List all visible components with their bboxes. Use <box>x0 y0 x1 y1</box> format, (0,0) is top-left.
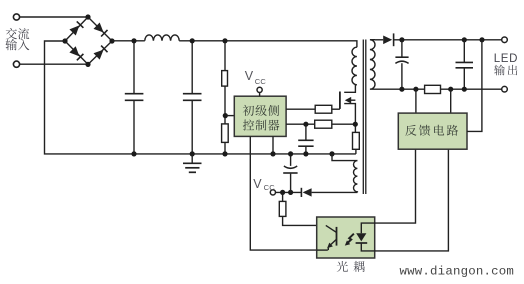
diode D6 (output rectifier) <box>375 33 394 46</box>
wire: R1 to R2 <box>224 86 226 124</box>
label: Vcc (upper) <box>245 69 267 86</box>
wire: D5 cathode to Vcc node <box>276 191 302 193</box>
label: U1 line1 初级侧 <box>243 105 279 116</box>
resistor R7 (LED current sense) <box>425 85 441 93</box>
ground symbol <box>183 154 202 172</box>
inductor L1 <box>145 35 179 41</box>
svg-text:CC: CC <box>255 77 267 86</box>
U3 LED anode lead <box>361 223 374 233</box>
feedback U2 box (反馈电路) <box>398 113 467 149</box>
wire: secondary top rail <box>394 39 502 41</box>
wire: R6 to optocoupler collector <box>283 216 326 225</box>
transformer T1 core <box>363 40 366 195</box>
node: feedback sense left <box>413 87 418 92</box>
bridge diode D3 (left-to-bottom) <box>69 46 83 60</box>
node: Q1 source / R4 junction <box>353 122 358 127</box>
svg-text:CC: CC <box>264 183 276 192</box>
node: C1 top <box>131 38 136 43</box>
node: sense/cap junction <box>303 122 308 127</box>
capacitor C4 (Vcc, electrolytic) <box>283 154 297 193</box>
transistor Q1 source lead <box>344 104 355 133</box>
wire: U1 to opto emitter <box>250 136 316 250</box>
transformer T1 primary winding <box>352 47 357 85</box>
U3 phototransistor emitter <box>327 239 336 250</box>
AC input terminal (top) <box>13 14 19 20</box>
U3 phototransistor collector <box>326 225 337 232</box>
node: bridge bottom vertex <box>85 62 90 67</box>
wire: sense left to feedback box <box>415 89 417 113</box>
AC input terminal (bottom) <box>13 61 19 67</box>
U3 LED cathode lead <box>361 243 374 251</box>
label: Vcc (lower) <box>253 177 275 192</box>
node: feedback top <box>479 37 484 42</box>
node: feedback sense right <box>448 87 453 92</box>
label: AC input (交流 / 输入) <box>5 28 29 50</box>
U3 emitter wire inside box <box>317 249 328 251</box>
wire: feedback to top rail <box>467 40 482 132</box>
capacitor C6 (output) <box>456 40 474 89</box>
node: bridge left vertex <box>62 38 67 43</box>
resistor R1 (startup upper) <box>222 71 228 87</box>
bridge diode D2 (top-to-right) <box>93 22 107 36</box>
node: Vcc / R6 junction <box>280 190 285 195</box>
capacitor C5 (output, electrolytic) <box>395 40 408 89</box>
transformer T1 secondary winding <box>370 40 375 89</box>
wire: primary top rail (inductor to transformer) <box>179 41 357 47</box>
node: C6 bottom <box>462 87 467 92</box>
node: C2 top <box>190 38 195 43</box>
node: C3 bottom on rail <box>303 151 308 156</box>
wire: secondary bottom rail (left) <box>375 88 425 90</box>
U3 LED triangle <box>356 233 366 241</box>
wire: bridge negative to primary ground rail <box>45 41 356 154</box>
node: C4 top on rail <box>288 151 293 156</box>
svg-text:www.diangon.com: www.diangon.com <box>400 264 515 278</box>
wire: rail to R1 <box>224 41 226 71</box>
label: optocoupler (光耦) <box>337 261 365 272</box>
wire: U1 ground pin <box>272 136 274 154</box>
wire: U1 gate out <box>286 108 315 110</box>
node: C6 top <box>462 37 467 42</box>
node: bridge top vertex <box>85 14 90 19</box>
capacitor C2 (bulk filter 2) <box>183 41 202 154</box>
label: U1 line2 控制器 <box>243 120 280 131</box>
resistor R6 (opto bias) <box>279 192 286 216</box>
node: U1 ground on rail <box>270 151 275 156</box>
node: ground rail / aux tap <box>329 151 334 156</box>
node: divider tap <box>223 113 228 118</box>
wire: opto cathode to feedback <box>375 149 449 251</box>
wire: R4 to MOSFET source node <box>332 123 356 125</box>
wire: aux winding tap from ground rail <box>332 154 357 161</box>
resistor R3 (gate) <box>315 105 332 113</box>
transistor Q1 gate bar <box>339 92 341 109</box>
U3 phototransistor bar <box>336 227 338 246</box>
wire: aux winding to D5 anode <box>312 191 358 193</box>
resistor R2 (startup lower) <box>222 124 229 142</box>
resistor R4 (sense filter) <box>315 120 332 128</box>
wire: tap to controller <box>225 115 234 117</box>
label: U2 反馈电路 <box>405 125 458 136</box>
node: C5 bottom <box>399 87 404 92</box>
diode D5 (Vcc rectifier) <box>301 188 311 197</box>
wire: secondary bottom rail (right) <box>441 88 502 90</box>
label: LED output <box>494 53 518 75</box>
Vcc pin terminal of U1 <box>257 87 262 96</box>
svg-text:LED: LED <box>494 53 518 65</box>
wire: U1 sense out <box>286 123 315 125</box>
capacitor C1 (bulk filter 1) <box>125 41 144 154</box>
U3 light arrow <box>345 234 354 246</box>
node: bridge right vertex <box>109 38 114 43</box>
resistor R5 (current sense) <box>353 132 360 149</box>
transformer T1 auxiliary winding <box>353 161 357 193</box>
wire: bottom AC terminal to bridge bottom <box>20 63 89 65</box>
wire: opto anode to feedback <box>375 149 416 223</box>
bridge diode D1 (left-to-top) <box>69 21 83 35</box>
bridge rectifier frame <box>65 17 112 64</box>
controller U1 box (初级侧控制器) <box>234 96 286 136</box>
wire: top AC terminal to bridge top <box>20 16 89 18</box>
transistor Q1 drain lead <box>344 85 355 93</box>
optocoupler U3 box <box>317 217 375 258</box>
node: Vcc / C4 junction <box>288 190 293 195</box>
node: C2 bottom <box>190 151 195 156</box>
watermark www.diangon.com <box>400 264 515 278</box>
U3 LED cathode bar <box>356 242 368 244</box>
Vcc terminal (lower) <box>270 190 275 195</box>
wire: R5 to ground rail <box>355 149 357 154</box>
transistor Q1 body arrow <box>345 97 356 104</box>
capacitor C3 (sense filter) <box>298 124 313 154</box>
svg-text:V: V <box>245 69 254 83</box>
node: rail / R1 top <box>222 38 227 43</box>
svg-text:V: V <box>253 177 262 191</box>
node: R2 bottom on rail <box>222 151 227 156</box>
node: C1 bottom <box>131 151 136 156</box>
wire: R2 to ground rail <box>224 142 226 154</box>
LED output terminal (top) <box>502 37 508 43</box>
wire: sense right to feedback box <box>450 89 452 113</box>
bridge diode D4 (bottom-to-right) <box>93 46 107 60</box>
LED output terminal (bottom) <box>502 86 508 92</box>
wire: primary top rail (bridge + to inductor) <box>112 40 145 42</box>
node: C5 top <box>399 37 404 42</box>
wire: R3 to MOSFET gate <box>332 108 340 110</box>
